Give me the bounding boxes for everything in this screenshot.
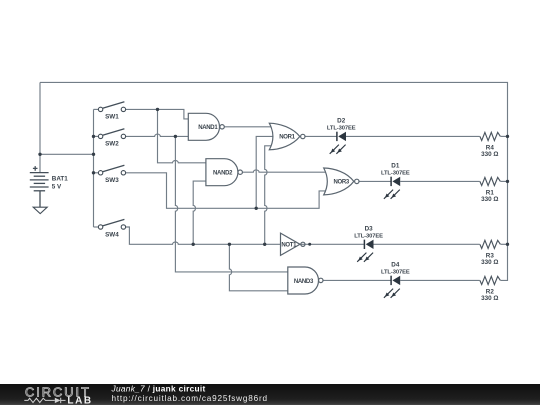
LED D3: [354, 225, 383, 262]
svg-text:NOR3: NOR3: [333, 180, 349, 186]
wire SW3 stub: [94, 172, 99, 174]
battery BAT1: [30, 166, 68, 207]
nor gate NOR3: [324, 168, 359, 195]
wire left switch bus: [93, 109, 95, 227]
resistor R4: [480, 132, 501, 158]
svg-text:http://circuitlab.com/ca925fsw: http://circuitlab.com/ca925fswg86rd: [112, 394, 268, 403]
node R4 bus junction: [506, 135, 509, 138]
wire NAND1 output to NOR1 top input: [224, 126, 273, 128]
svg-text:D4: D4: [391, 261, 400, 268]
svg-text:BAT1: BAT1: [52, 176, 68, 183]
wire R1 to bus: [501, 180, 508, 182]
svg-text:330 Ω: 330 Ω: [481, 295, 498, 302]
node SW2 branch: [174, 135, 177, 138]
node SW2 bus junction: [92, 135, 95, 138]
nand gate NAND3: [288, 267, 323, 294]
svg-text:LTL-307EE: LTL-307EE: [381, 170, 410, 176]
resistor R1: [480, 177, 501, 203]
svg-text:SW4: SW4: [105, 231, 119, 238]
wire branch to NOR1 bottom input: [265, 146, 272, 245]
wire SW1 branch to NAND2 top input: [158, 109, 208, 162]
wire SW2 output to NAND1 bottom input: [126, 134, 190, 136]
wire SW2 branch down to NAND3 top input: [175, 136, 289, 272]
svg-text:330 Ω: 330 Ω: [481, 259, 498, 266]
svg-text:LAB: LAB: [67, 396, 92, 405]
svg-text:D2: D2: [337, 117, 346, 124]
svg-text:D1: D1: [391, 162, 400, 169]
svg-text:SW1: SW1: [105, 114, 119, 121]
wire NAND2 output to NOR3 top input: [243, 170, 327, 172]
wire SW4 stub: [94, 226, 99, 228]
logo resistor-diode doodle: [24, 398, 65, 403]
node R3 bus junction: [506, 243, 509, 246]
node SW1 branch: [156, 108, 159, 111]
svg-text:NAND3: NAND3: [294, 279, 314, 285]
svg-text:NOR1: NOR1: [279, 135, 295, 141]
switch SW3: [98, 165, 125, 184]
nor gate NOR1: [269, 123, 305, 150]
wire NOR1 output to D2: [305, 135, 337, 137]
wire D1 to R1: [400, 180, 480, 182]
svg-text:330 Ω: 330 Ω: [481, 196, 498, 203]
svg-text:LTL-307EE: LTL-307EE: [381, 269, 410, 275]
ground: [33, 207, 47, 213]
wire SW4 output to NOT1 input: [126, 227, 282, 244]
node NOT1 output: [308, 243, 311, 246]
wire NAND3 output to D4: [323, 279, 391, 281]
svg-text:SW3: SW3: [105, 177, 119, 184]
wire SW1 output to NAND1 top input: [126, 109, 190, 119]
LED D2: [327, 117, 356, 153]
wire branch to NAND3 bottom input: [229, 244, 289, 290]
wire SW1 stub: [94, 108, 99, 110]
wire R3 to bus: [501, 243, 508, 245]
wire SW3 output to NOR3 bottom input: [126, 173, 328, 209]
wire SW2 stub: [94, 135, 99, 137]
switch SW2: [98, 129, 125, 148]
wire D3 to R3: [374, 243, 480, 245]
nand gate NAND1: [188, 113, 224, 140]
wire battery tap to switch bus: [40, 153, 94, 155]
wire R4 to bus: [501, 135, 508, 137]
svg-text:LTL-307EE: LTL-307EE: [327, 125, 356, 131]
wire NOT1 output to D3: [300, 243, 364, 245]
resistor R3: [480, 240, 501, 266]
switch SW4: [98, 219, 125, 238]
wire D2 to R4: [346, 135, 480, 137]
wire top power rail and right bus: [40, 82, 508, 280]
svg-text:330 Ω: 330 Ω: [481, 151, 498, 158]
nand gate NAND2: [206, 159, 243, 186]
svg-text:NOT1: NOT1: [281, 243, 297, 249]
wire battery top lead: [39, 82, 41, 172]
wire branch to NAND2 bottom input: [193, 181, 207, 244]
footer bar: [0, 384, 540, 405]
svg-text:NAND1: NAND1: [198, 125, 218, 131]
node SW3 bus junction: [92, 171, 95, 174]
node battery tap right: [92, 153, 95, 156]
switch SW1: [98, 102, 125, 121]
svg-text:SW2: SW2: [105, 141, 119, 148]
node NAND3 branch: [228, 243, 231, 246]
LED D1: [381, 162, 410, 198]
wire D4 to R2: [400, 279, 480, 281]
LED D4: [381, 261, 410, 297]
wire NOR3 output to D1: [359, 180, 391, 182]
svg-text:Juank_7 / juank circuit: Juank_7 / juank circuit: [111, 384, 206, 394]
svg-text:D3: D3: [365, 225, 374, 232]
node R1 bus junction: [506, 180, 509, 183]
node NOR1 middle branch: [255, 207, 258, 210]
node NAND2 bottom branch: [192, 243, 195, 246]
node battery tap left: [38, 153, 41, 156]
resistor R2: [480, 276, 501, 302]
svg-text:NAND2: NAND2: [213, 171, 233, 177]
inverter NOT1: [281, 233, 306, 255]
svg-text:5 V: 5 V: [52, 183, 62, 190]
svg-text:LTL-307EE: LTL-307EE: [354, 233, 383, 239]
node NOR1 bottom branch: [263, 243, 266, 246]
wire SW3 branch up to NOR1 middle input: [256, 136, 275, 208]
